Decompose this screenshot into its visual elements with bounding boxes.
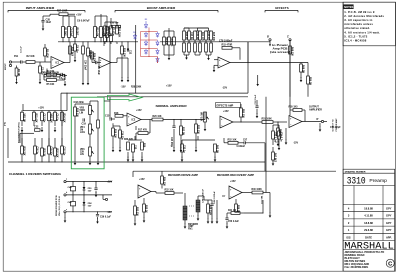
svg-text:3. All capacitors in: 3. All capacitors in bbox=[344, 18, 372, 22]
svg-text:RV1: RV1 bbox=[188, 228, 193, 231]
svg-text:0.022uF: 0.022uF bbox=[237, 146, 246, 148]
svg-text:R29 22K: R29 22K bbox=[23, 147, 25, 156]
svg-text:File: 3310PRE.DWG: File: 3310PRE.DWG bbox=[345, 265, 369, 269]
svg-text:R19 10K: R19 10K bbox=[114, 129, 116, 138]
svg-text:C18 220n: C18 220n bbox=[74, 101, 85, 104]
svg-text:-15V: -15V bbox=[121, 86, 126, 89]
svg-text:R38 100K: R38 100K bbox=[209, 205, 211, 216]
svg-text:C10 22n: C10 22n bbox=[170, 38, 172, 47]
svg-text:R34 10K: R34 10K bbox=[163, 177, 166, 186]
svg-text:REVERB DRIVE AMP: REVERB DRIVE AMP bbox=[168, 174, 199, 177]
svg-text:C22: C22 bbox=[34, 126, 39, 129]
svg-text:VR2 22K: VR2 22K bbox=[50, 114, 52, 124]
svg-text:C52 2.2uF: C52 2.2uF bbox=[274, 132, 276, 143]
svg-text:15V: 15V bbox=[88, 205, 92, 207]
svg-text:R36: R36 bbox=[143, 143, 145, 148]
svg-text:C10 1uF: C10 1uF bbox=[110, 23, 119, 25]
svg-text:R28 100K: R28 100K bbox=[131, 86, 142, 88]
svg-text:C54 2.2u: C54 2.2u bbox=[280, 132, 283, 142]
svg-text:R23 10K: R23 10K bbox=[197, 125, 199, 134]
svg-text:10uF: 10uF bbox=[46, 21, 52, 24]
svg-text:C30 1u: C30 1u bbox=[36, 147, 38, 155]
svg-text:c: c bbox=[66, 209, 67, 211]
svg-text:R47 8K2: R47 8K2 bbox=[274, 153, 277, 163]
svg-text:C11 22n: C11 22n bbox=[196, 32, 198, 41]
svg-text:R18 10K: R18 10K bbox=[76, 108, 78, 117]
svg-text:C6 0.047uF: C6 0.047uF bbox=[77, 20, 90, 23]
svg-text:1. P.C.B. JM 99 iss 9: 1. P.C.B. JM 99 iss 9 bbox=[344, 10, 375, 14]
svg-text:+15V: +15V bbox=[139, 178, 145, 181]
svg-text:IC1: IC1 bbox=[56, 62, 60, 65]
svg-text:C24 10uF: C24 10uF bbox=[84, 60, 87, 71]
svg-text:C17 22n: C17 22n bbox=[43, 114, 45, 123]
svg-text:LOG: LOG bbox=[80, 132, 85, 134]
svg-text:R33 10K: R33 10K bbox=[136, 207, 138, 216]
svg-text:INPUT AMPLIFIER: INPUT AMPLIFIER bbox=[26, 6, 55, 10]
svg-text:R1 1M2: R1 1M2 bbox=[64, 28, 66, 37]
svg-text:R50 10K: R50 10K bbox=[242, 109, 244, 118]
svg-text:15V: 15V bbox=[88, 191, 92, 193]
svg-text:R31 1K: R31 1K bbox=[43, 149, 45, 157]
svg-text:C36 0.1uF: C36 0.1uF bbox=[100, 217, 111, 219]
svg-text:DRAWING NUMBER: DRAWING NUMBER bbox=[345, 171, 366, 174]
svg-text:C6 10uF: C6 10uF bbox=[70, 28, 72, 38]
svg-text:R20 10K: R20 10K bbox=[153, 116, 162, 118]
svg-text:C53 10uF: C53 10uF bbox=[255, 94, 257, 104]
svg-text:C48 0.0047uF: C48 0.0047uF bbox=[202, 188, 205, 203]
svg-text:+15V: +15V bbox=[166, 84, 172, 87]
svg-text:R25 1M: R25 1M bbox=[89, 50, 91, 58]
svg-text:+15V: +15V bbox=[230, 180, 236, 183]
svg-text:R16 1K: R16 1K bbox=[185, 32, 187, 40]
svg-text:-15V: -15V bbox=[107, 212, 112, 214]
svg-text:R21 47K: R21 47K bbox=[35, 114, 38, 123]
svg-text:Amp PCB: Amp PCB bbox=[273, 47, 288, 51]
svg-text:+15V: +15V bbox=[223, 110, 229, 113]
svg-text:BOOST AMPLIFIER: BOOST AMPLIFIER bbox=[147, 6, 176, 10]
svg-text:to Power: to Power bbox=[272, 43, 288, 47]
svg-text:18.8.88: 18.8.88 bbox=[364, 221, 373, 225]
svg-text:IC3,4 - MC4558: IC3,4 - MC4558 bbox=[344, 38, 366, 42]
svg-text:R11 10K: R11 10K bbox=[106, 27, 108, 36]
svg-text:C50 2.2uF: C50 2.2uF bbox=[228, 221, 239, 223]
svg-text:C33 1u: C33 1u bbox=[183, 145, 185, 153]
svg-text:2. mF denotes Microfarads: 2. mF denotes Microfarads bbox=[344, 14, 384, 18]
svg-text:VR7 10K: VR7 10K bbox=[200, 112, 202, 122]
svg-text:R12 47K: R12 47K bbox=[96, 28, 99, 37]
svg-text:R8 2K7: R8 2K7 bbox=[76, 28, 78, 37]
svg-text:otherwise stated.: otherwise stated. bbox=[344, 26, 370, 30]
svg-text:R39 1M: R39 1M bbox=[237, 205, 239, 213]
svg-text:CHANNEL 1 REVERB SWITCHING: CHANNEL 1 REVERB SWITCHING bbox=[9, 173, 61, 176]
svg-text:R24 10K: R24 10K bbox=[63, 114, 66, 123]
svg-text:4.11.88: 4.11.88 bbox=[364, 214, 373, 218]
svg-text:R14 1K: R14 1K bbox=[165, 38, 168, 46]
svg-text:R42 1M: R42 1M bbox=[216, 145, 219, 153]
svg-text:microfarads unless: microfarads unless bbox=[344, 22, 373, 26]
svg-text:R49 1M: R49 1M bbox=[302, 65, 305, 73]
svg-text:C12: C12 bbox=[129, 50, 131, 55]
svg-text:R10 5K6: R10 5K6 bbox=[71, 47, 73, 57]
svg-text:VR1 1M: VR1 1M bbox=[23, 114, 25, 122]
svg-text:OUTPUT TO: OUTPUT TO bbox=[333, 119, 335, 131]
svg-text:R5 10K: R5 10K bbox=[47, 84, 55, 86]
svg-text:5. IC1,2 - TL072: 5. IC1,2 - TL072 bbox=[344, 34, 367, 38]
svg-text:-15V: -15V bbox=[293, 142, 298, 145]
svg-text:R15 470R: R15 470R bbox=[222, 44, 233, 47]
svg-text:+15V: +15V bbox=[136, 109, 142, 112]
svg-text:AMPLIFIER: AMPLIFIER bbox=[309, 108, 322, 111]
svg-text:GPY: GPY bbox=[386, 207, 392, 211]
svg-text:R1 1M: R1 1M bbox=[17, 69, 19, 76]
svg-text:NORMAL AMPLIFIER: NORMAL AMPLIFIER bbox=[156, 105, 187, 108]
svg-text:(FS): (FS) bbox=[5, 122, 7, 126]
svg-text:3310: 3310 bbox=[347, 177, 366, 188]
svg-text:R26 10K: R26 10K bbox=[93, 53, 95, 62]
svg-text:GPY: GPY bbox=[386, 228, 392, 232]
svg-text:IC2: IC2 bbox=[132, 119, 136, 122]
svg-text:R48 10K: R48 10K bbox=[291, 47, 294, 56]
svg-text:INPUT: INPUT bbox=[5, 63, 7, 70]
svg-text:18.8.88: 18.8.88 bbox=[364, 207, 373, 211]
svg-text:R44 47K: R44 47K bbox=[201, 32, 204, 41]
svg-text:ISS: ISS bbox=[346, 235, 350, 239]
svg-text:C35: C35 bbox=[134, 145, 136, 150]
svg-text:D3: D3 bbox=[145, 19, 147, 21]
svg-text:R18: R18 bbox=[114, 112, 119, 115]
svg-text:NOTES: NOTES bbox=[344, 5, 353, 9]
svg-text:R17 47K: R17 47K bbox=[138, 129, 147, 132]
svg-text:C20 360p: C20 360p bbox=[170, 137, 172, 148]
svg-text:LIN: LIN bbox=[80, 154, 84, 156]
svg-text:R2 10K: R2 10K bbox=[27, 55, 35, 58]
svg-text:C19: C19 bbox=[82, 123, 87, 126]
svg-text:EFFECTS AMP: EFFECTS AMP bbox=[217, 104, 234, 107]
svg-text:APP.: APP. bbox=[386, 235, 392, 239]
svg-text:C1 1uF: C1 1uF bbox=[21, 45, 23, 53]
svg-text:C49 0.022uF: C49 0.022uF bbox=[213, 191, 216, 204]
svg-text:R51 100K: R51 100K bbox=[262, 118, 273, 120]
svg-text:Preamp: Preamp bbox=[369, 178, 387, 183]
svg-text:(via screen): (via screen) bbox=[270, 51, 290, 54]
svg-text:R56 1M: R56 1M bbox=[309, 77, 311, 85]
svg-text:POWER AMP: POWER AMP bbox=[335, 118, 338, 132]
svg-text:R13 10K: R13 10K bbox=[123, 48, 125, 57]
svg-text:C4 10uF: C4 10uF bbox=[97, 66, 100, 76]
svg-text:C78 1000pF: C78 1000pF bbox=[219, 40, 233, 43]
svg-text:LIN: LIN bbox=[80, 113, 84, 115]
svg-text:29.6.88: 29.6.88 bbox=[364, 228, 373, 232]
svg-text:GPY: GPY bbox=[386, 221, 392, 225]
svg-text:DATE: DATE bbox=[365, 235, 372, 239]
svg-text:R40 100K: R40 100K bbox=[252, 188, 263, 191]
svg-text:R35 1K: R35 1K bbox=[145, 205, 147, 213]
svg-text:C13 47n: C13 47n bbox=[207, 32, 210, 41]
svg-text:C9 10u: C9 10u bbox=[76, 45, 78, 53]
svg-text:GPY: GPY bbox=[386, 214, 392, 218]
svg-text:R32 10K: R32 10K bbox=[165, 190, 174, 192]
svg-text:R3 470K: R3 470K bbox=[46, 49, 49, 58]
svg-text:C16 10u: C16 10u bbox=[121, 131, 123, 140]
svg-text:C14 1u: C14 1u bbox=[56, 114, 59, 122]
svg-text:+15V: +15V bbox=[38, 106, 44, 109]
svg-text:EFFECTS: EFFECTS bbox=[275, 6, 289, 10]
svg-text:+15V: +15V bbox=[107, 182, 113, 184]
svg-text:C31 10u: C31 10u bbox=[50, 147, 52, 156]
svg-text:-15V: -15V bbox=[222, 87, 227, 90]
svg-text:C32 22n: C32 22n bbox=[63, 147, 65, 156]
svg-text:REVERB RECOVERY AMP: REVERB RECOVERY AMP bbox=[217, 174, 254, 177]
svg-text:C7 470p: C7 470p bbox=[112, 27, 115, 36]
svg-text:+15V: +15V bbox=[76, 14, 82, 16]
svg-text:R27 100R: R27 100R bbox=[57, 11, 68, 13]
svg-text:R45 10K: R45 10K bbox=[212, 32, 215, 41]
svg-text:D2: D2 bbox=[133, 32, 135, 34]
svg-text:R13 100K: R13 100K bbox=[118, 27, 120, 38]
svg-text:4. All resistors 1/4 watt.: 4. All resistors 1/4 watt. bbox=[344, 30, 380, 34]
svg-text:VIA +15,0,-15 P.S.U.: VIA +15,0,-15 P.S.U. bbox=[58, 195, 61, 216]
svg-text:FS1: FS1 bbox=[14, 56, 19, 58]
svg-text:R22 1M: R22 1M bbox=[182, 127, 184, 135]
svg-text:FROM POWER PCB: FROM POWER PCB bbox=[56, 195, 58, 216]
svg-text:C10 22n: C10 22n bbox=[190, 32, 192, 41]
svg-text:C15: C15 bbox=[105, 115, 110, 118]
svg-text:R37 10K: R37 10K bbox=[56, 149, 58, 158]
